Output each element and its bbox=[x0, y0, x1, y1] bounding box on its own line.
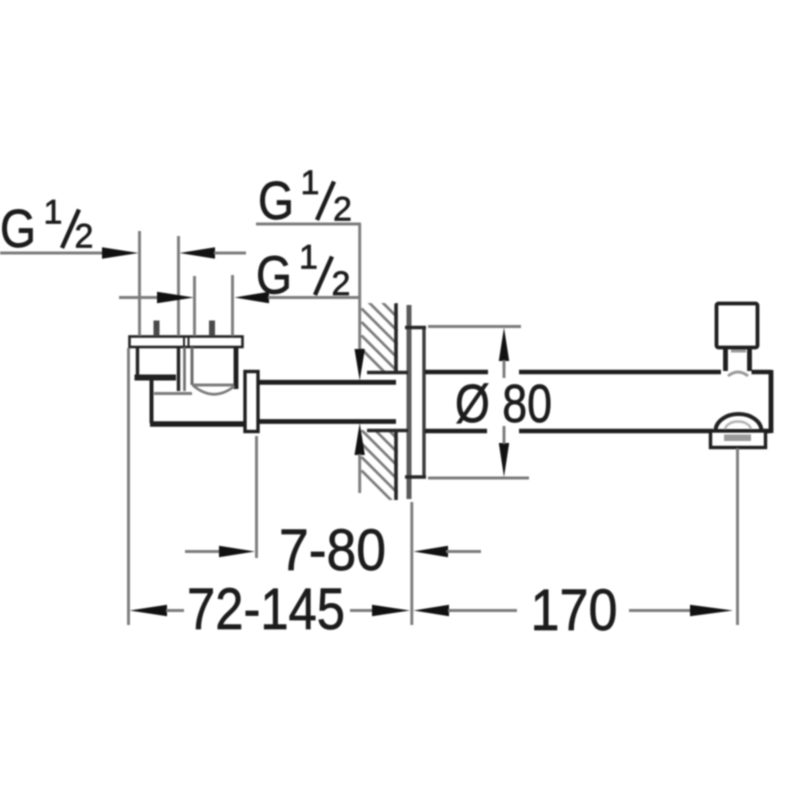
underline G1/2 lower bbox=[268, 296, 361, 299]
svg-text:7-80: 7-80 bbox=[279, 518, 386, 583]
spout tube right end edge bbox=[769, 370, 774, 433]
wall face line upper bbox=[394, 304, 398, 373]
dim arrow row1 left bbox=[102, 247, 139, 259]
72-145 left stub bbox=[166, 609, 184, 612]
svg-text:G: G bbox=[258, 171, 294, 231]
label G1/2 lower: slash bbox=[315, 257, 332, 296]
O80 stub top bbox=[503, 360, 506, 378]
extension line x412 (wall face) bbox=[410, 502, 413, 625]
leader vertical G1/2 middle bbox=[358, 224, 361, 351]
connection pipe top edge bbox=[258, 380, 396, 385]
escutcheon flange front face bbox=[422, 328, 425, 478]
svg-text:G: G bbox=[256, 246, 292, 306]
svg-text:1: 1 bbox=[301, 164, 320, 202]
170 right stub bbox=[629, 609, 691, 612]
flange bar divider bbox=[183, 337, 185, 348]
extension line x232 bbox=[231, 275, 234, 336]
svg-text:Ø 80: Ø 80 bbox=[455, 374, 552, 434]
leader line G1/2 top-left bbox=[0, 252, 102, 255]
label G1/2 top-left: slash bbox=[62, 210, 79, 249]
inlet pipe stub right bbox=[209, 321, 215, 337]
extension line x178 bbox=[177, 236, 180, 336]
svg-text:1: 1 bbox=[299, 239, 318, 277]
diverter knob bbox=[717, 304, 758, 348]
7-80 arrow right bbox=[414, 546, 449, 558]
pipe label arrow up bbox=[355, 423, 365, 455]
inlet pipe stub left bbox=[154, 321, 160, 337]
dim arrow row1 right bbox=[180, 247, 216, 259]
svg-text:1: 1 bbox=[44, 194, 63, 232]
7-80 arrow left bbox=[219, 546, 255, 558]
wall inner layer line bbox=[407, 305, 412, 499]
row1 right tail bbox=[214, 252, 246, 255]
elbow body top inner line bbox=[154, 392, 192, 395]
escutcheon flange bottom edge bbox=[405, 475, 426, 479]
union neck second line bbox=[183, 347, 186, 391]
union body right box right edge bbox=[234, 347, 239, 389]
spout tube bottom edge bbox=[425, 429, 771, 434]
elbow body bottom edge bbox=[150, 421, 248, 426]
72-145 right stub bbox=[350, 609, 373, 612]
dim arrow row2 left bbox=[157, 292, 194, 304]
extension line x128 (72-145 left) bbox=[127, 348, 130, 625]
union body right box left edge bbox=[191, 347, 194, 385]
pipe label arrow down bbox=[355, 349, 365, 381]
pipe label arrow tail bbox=[358, 454, 361, 493]
72-145 arrow right bbox=[372, 605, 410, 617]
170 left stub bbox=[448, 609, 517, 612]
O80 arrow up bbox=[499, 328, 509, 362]
svg-text:72-145: 72-145 bbox=[187, 577, 345, 642]
svg-text:2: 2 bbox=[75, 218, 94, 256]
ball socket arc bbox=[193, 385, 235, 394]
escutcheon flange top edge bbox=[405, 326, 426, 330]
extension line x194 bbox=[193, 276, 196, 336]
spout nose dome bbox=[716, 414, 762, 431]
wall face line lower bbox=[394, 430, 398, 500]
diverter knob stem bbox=[726, 347, 750, 376]
mounting flange bar bbox=[130, 337, 243, 348]
wall hole top edge bbox=[367, 371, 408, 375]
connection pipe bottom edge bbox=[258, 419, 396, 424]
spout nose inner shadow arc bbox=[725, 422, 751, 431]
union collar nut bbox=[245, 372, 258, 432]
union body right box bottom line bbox=[193, 384, 234, 387]
dim arrow row2 right bbox=[235, 292, 270, 304]
aerator slot bbox=[724, 435, 751, 442]
aerator housing box bbox=[711, 431, 766, 448]
spout tube top edge bbox=[425, 370, 771, 375]
union body left box left edge bbox=[136, 347, 139, 376]
extension line x139 bbox=[138, 231, 141, 336]
72-145 arrow left bbox=[130, 605, 168, 617]
O80 top extension bbox=[428, 325, 521, 328]
O80 bottom extension bbox=[428, 477, 529, 480]
wall hole bottom edge bbox=[367, 429, 408, 433]
elbow body left cap bbox=[150, 379, 154, 423]
O80 stub bottom bbox=[503, 426, 506, 444]
170 arrow right bbox=[690, 605, 733, 617]
wall hatching upper band bbox=[362, 255, 398, 386]
svg-text:170: 170 bbox=[531, 578, 618, 643]
7-80 left tail bbox=[185, 550, 221, 553]
170 arrow left bbox=[414, 605, 450, 617]
union body left box right edge bbox=[177, 347, 180, 391]
label G1/2 middle: slash bbox=[317, 182, 334, 221]
svg-text:2: 2 bbox=[332, 265, 351, 303]
svg-text:2: 2 bbox=[333, 191, 352, 229]
extension line x256 (7-80 left) bbox=[255, 436, 258, 558]
extension line x737 (spout tip) bbox=[736, 448, 739, 625]
O80 arrow down bbox=[499, 443, 509, 477]
union body left box bottom bar bbox=[135, 375, 177, 381]
svg-text:G: G bbox=[0, 199, 36, 259]
underline G1/2 middle bbox=[256, 223, 361, 226]
wall hatching lower band bbox=[362, 390, 398, 507]
row2 left tail bbox=[119, 296, 158, 299]
7-80 right tail bbox=[446, 550, 481, 553]
